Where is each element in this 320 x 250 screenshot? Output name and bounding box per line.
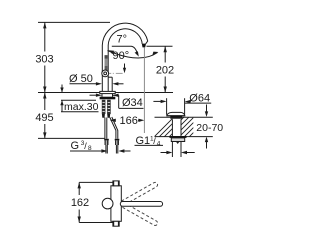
drain lock nut bbox=[170, 136, 187, 138]
diameter 34 leader bend bbox=[118, 95, 120, 108]
extension line bottom bbox=[79, 222, 113, 224]
base plate bbox=[100, 91, 115, 93]
dashed lever lower bbox=[119, 201, 158, 226]
bottom cap bbox=[113, 221, 119, 226]
20-70 dimension arrows bbox=[206, 105, 208, 113]
threaded shank: left stud bbox=[102, 100, 106, 114]
diameter 64 arrows bbox=[153, 100, 161, 102]
svg-text:max.30: max.30 bbox=[64, 101, 99, 113]
top extension line (spout top reference) bbox=[38, 21, 110, 23]
lever stick (gray) bbox=[105, 55, 108, 70]
max.30 lower arrow bbox=[61, 100, 63, 112]
right nipple bbox=[115, 145, 117, 154]
left hose connector nut bbox=[104, 139, 109, 141]
deck reference line right bbox=[115, 92, 173, 94]
svg-text:303: 303 bbox=[35, 54, 53, 66]
svg-text:20-70: 20-70 bbox=[196, 122, 223, 134]
ball joint bbox=[102, 70, 109, 77]
svg-text:495: 495 bbox=[35, 112, 53, 124]
svg-text:Ø64: Ø64 bbox=[189, 92, 210, 104]
spout outer contour bbox=[102, 23, 147, 92]
7-degree reference line with hooked arrow bbox=[112, 46, 138, 54]
deck reference line left bbox=[38, 92, 100, 94]
thread flecks bbox=[102, 102, 110, 111]
diameter 34 arrows at waist bbox=[90, 94, 97, 96]
drain neck (dark) bbox=[170, 116, 182, 119]
G 3/8 arrows bbox=[101, 149, 107, 152]
pop-up drain plug dome bbox=[167, 112, 185, 115]
right hose connector nut bbox=[115, 139, 120, 141]
hose end extension line (495 bottom) bbox=[38, 137, 105, 139]
base waist bbox=[101, 94, 103, 97]
spout outlet extension line (vertical) bbox=[143, 48, 145, 133]
counter underside line (max.30) bbox=[61, 99, 96, 101]
aerator nub (dark) bbox=[142, 44, 146, 48]
extension line top bbox=[79, 181, 113, 183]
dimension line 495 bbox=[44, 93, 46, 111]
svg-text:166: 166 bbox=[120, 115, 138, 127]
right supply hose bbox=[110, 118, 116, 139]
90-degree leader arrow bbox=[124, 64, 126, 70]
swivel arc 90deg bbox=[108, 51, 158, 59]
body (top view) bbox=[111, 186, 121, 222]
svg-text:90°: 90° bbox=[113, 50, 130, 62]
drain pipe through slab bbox=[171, 119, 173, 136]
joint centerline dashes bbox=[109, 72, 123, 74]
shank feet bbox=[102, 114, 105, 118]
dimension line 303 bbox=[44, 22, 46, 51]
top cap bbox=[113, 181, 119, 186]
threaded shank: right stud bbox=[107, 100, 111, 114]
mounting flange (black) bbox=[100, 97, 116, 100]
svg-text:4: 4 bbox=[157, 140, 161, 147]
svg-text:7°: 7° bbox=[117, 34, 128, 46]
svg-text:162: 162 bbox=[71, 197, 89, 209]
dashed lever upper bbox=[119, 181, 158, 206]
G1 1/4 arrows bbox=[161, 152, 169, 154]
diameter 50 right arrow bbox=[117, 83, 124, 85]
outlet extension line horizontal (202 top) bbox=[147, 45, 173, 47]
left nipple bbox=[105, 145, 107, 154]
drain tailpipe bbox=[171, 142, 173, 158]
svg-text:Ø34: Ø34 bbox=[122, 97, 143, 109]
spout inner contour bbox=[108, 29, 142, 92]
svg-text:202: 202 bbox=[156, 64, 174, 76]
counter slab with hatching bbox=[155, 116, 213, 118]
svg-text:G: G bbox=[71, 140, 80, 152]
solid lever bbox=[120, 202, 162, 207]
dimension line 202 bbox=[164, 46, 166, 62]
max.30 upper arrow bbox=[61, 85, 63, 93]
body right edge (wider cylinder) bbox=[111, 77, 113, 91]
left supply hose bbox=[104, 118, 106, 139]
side boss (ellipse) bbox=[102, 198, 113, 209]
svg-text:Ø 50: Ø 50 bbox=[69, 73, 93, 85]
dimension line 162 bbox=[78, 182, 80, 195]
diameter 64 extension lines bbox=[166, 98, 168, 115]
